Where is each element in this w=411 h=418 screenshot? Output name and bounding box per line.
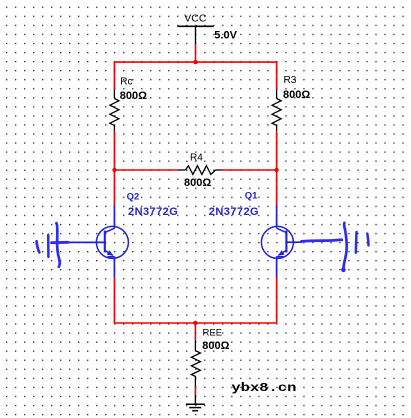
svg-text:VCC: VCC	[184, 13, 207, 25]
svg-text:800Ω: 800Ω	[202, 340, 229, 352]
node VCC junction	[193, 60, 197, 64]
wire left emitter (red)	[113, 278, 115, 324]
svg-text:R4: R4	[190, 153, 203, 164]
wire left column upper	[113, 61, 115, 89]
svg-text:800Ω: 800Ω	[120, 90, 147, 102]
wire VCC stem (red)	[195, 44, 197, 63]
wire R4 rail left	[114, 169, 178, 171]
hand-drawn source stroke left tall	[47, 235, 50, 257]
power VCC symbol	[178, 26, 214, 43]
svg-text:2N3772G: 2N3772G	[209, 206, 259, 218]
wire ground segment (red)	[194, 387, 196, 396]
wire ground lead (black)	[194, 395, 196, 404]
svg-text:2N3772G: 2N3772G	[128, 206, 178, 218]
wire left column mid	[113, 131, 115, 205]
svg-text:800Ω: 800Ω	[283, 89, 310, 101]
wire top rail	[114, 61, 276, 63]
svg-text:800Ω: 800Ω	[184, 177, 211, 189]
resistor REE	[191, 340, 200, 387]
transistor Q1 emitter arrow	[278, 250, 285, 256]
node junction right of R4	[274, 168, 278, 172]
hand-drawn source stroke right curly	[343, 223, 346, 270]
wire right column upper	[276, 61, 278, 89]
resistor R3	[272, 89, 281, 131]
hand-drawn source stroke left curly	[56, 223, 59, 267]
svg-text:R3: R3	[284, 75, 297, 86]
wire R4 rail right	[222, 169, 277, 171]
hand-drawn source stroke right curly end blob	[341, 268, 346, 273]
resistor Rc	[110, 89, 119, 131]
wire Q2 base	[57, 241, 105, 243]
wire right column mid	[276, 131, 278, 205]
hand-drawn source stroke left short	[37, 241, 40, 252]
node junction left of R4	[112, 168, 116, 172]
svg-text:Q1: Q1	[245, 191, 258, 202]
transistor Q2	[96, 206, 128, 278]
node bottom junction	[193, 321, 197, 325]
svg-text:ybx8.cn: ybx8.cn	[231, 382, 296, 395]
transistor Q1	[261, 206, 293, 278]
svg-text:REE: REE	[203, 327, 223, 338]
hand-drawn wire right	[302, 240, 342, 242]
resistor R4	[178, 166, 221, 175]
wire bottom rail	[114, 322, 276, 324]
wire REE stub (red)	[194, 323, 196, 340]
hand-drawn wire overdraw left	[52, 241, 69, 244]
svg-text:Rc: Rc	[120, 76, 132, 87]
svg-text:5.0V: 5.0V	[214, 29, 237, 41]
hand-drawn source stroke right middle	[355, 232, 358, 253]
svg-text:Q2: Q2	[127, 192, 140, 203]
wire right emitter (red)	[276, 278, 278, 324]
transistor Q2 emitter arrow	[107, 250, 114, 256]
ground	[186, 404, 205, 411]
hand-drawn source stroke right short	[367, 234, 368, 246]
wire Q1 base	[287, 241, 302, 243]
